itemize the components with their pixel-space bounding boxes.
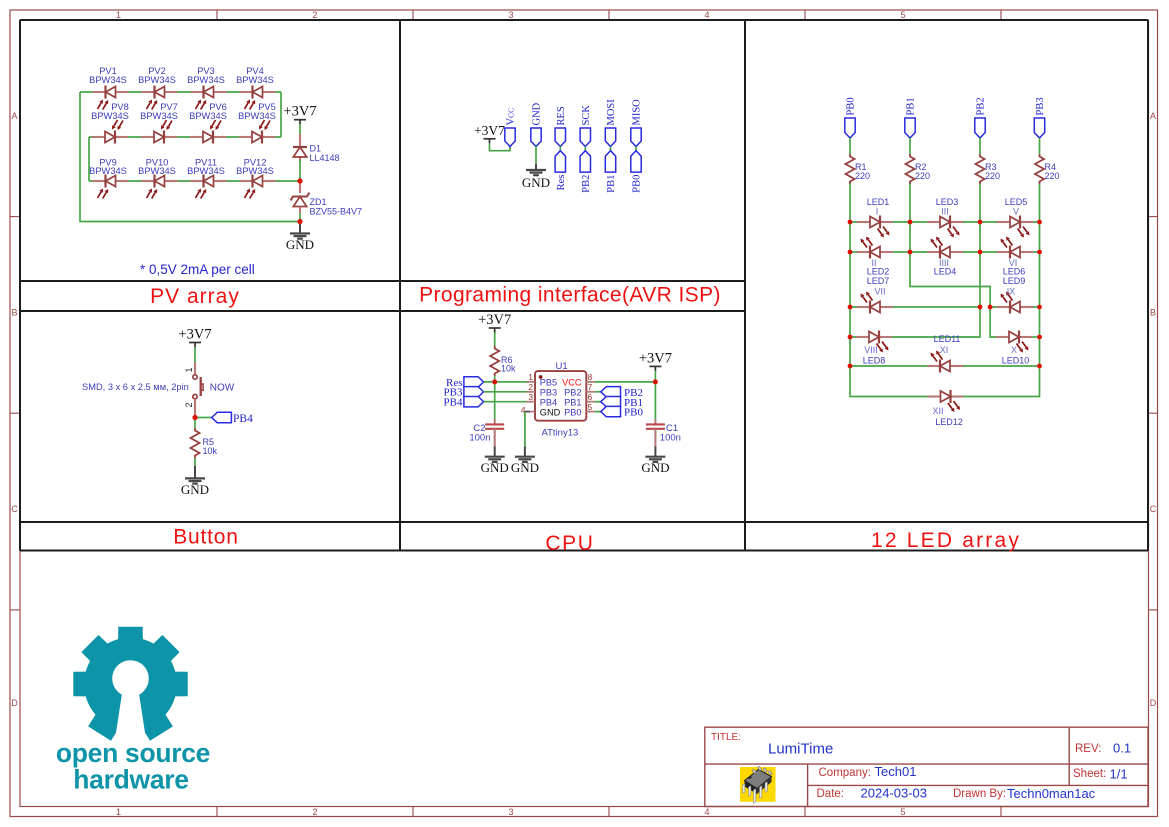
- svg-text:ATtiny13: ATtiny13: [542, 428, 579, 439]
- svg-text:Programing interface(AVR ISP): Programing interface(AVR ISP): [419, 284, 721, 307]
- svg-text:VCC: VCC: [506, 108, 517, 126]
- IC U1 ATtiny13: [521, 361, 595, 438]
- photodiode PV4 BPW34S: [236, 66, 275, 110]
- wire PV row2: [89, 136, 281, 138]
- svg-text:C: C: [11, 504, 18, 514]
- global label PB0 (CPU right): [601, 406, 644, 418]
- wire column B rail: [909, 222, 911, 252]
- svg-text:V: V: [1013, 207, 1019, 217]
- junction: [192, 415, 197, 420]
- junction: [1037, 250, 1042, 255]
- wire LED row4 left: [850, 336, 886, 338]
- wire pin to flag: [595, 411, 601, 413]
- junction: [297, 178, 302, 183]
- wire D1 to junction: [299, 160, 301, 181]
- svg-text:Res: Res: [556, 175, 567, 191]
- svg-text:220: 220: [1045, 171, 1060, 181]
- wire column D rail: [958, 222, 1040, 397]
- svg-text:D1: D1: [310, 144, 322, 154]
- global label GND (ISP top): [531, 102, 543, 146]
- svg-text:5: 5: [588, 402, 593, 412]
- power +3V7 (PV): [283, 104, 316, 125]
- svg-text:D: D: [1150, 698, 1157, 708]
- svg-text:220: 220: [855, 171, 870, 181]
- svg-text:GND: GND: [181, 482, 209, 497]
- global label PB1 (LED array): [905, 97, 917, 138]
- global label RES (ISP top): [555, 106, 567, 146]
- svg-text:8: 8: [588, 372, 593, 382]
- svg-text:BPW34S: BPW34S: [187, 75, 225, 85]
- wire flag to pin: [484, 381, 527, 383]
- svg-text:1: 1: [116, 10, 121, 20]
- svg-text:MISO: MISO: [632, 99, 643, 126]
- LED LED1: [857, 197, 893, 238]
- svg-text:2: 2: [312, 807, 317, 817]
- svg-text:hardware: hardware: [73, 765, 188, 795]
- wire (ISP link): [610, 147, 612, 151]
- wire button junction: [194, 415, 196, 428]
- svg-text:+3V7: +3V7: [178, 327, 211, 343]
- svg-text:REV:: REV:: [1075, 743, 1101, 755]
- global label PB4 (CPU left): [444, 397, 484, 409]
- resistor R1 220: [846, 154, 871, 184]
- svg-text:PB1: PB1: [906, 97, 917, 115]
- title block text: [711, 732, 1131, 801]
- svg-text:PB2: PB2: [976, 97, 987, 115]
- svg-text:PB2: PB2: [564, 388, 581, 398]
- resistor R6 10k: [490, 346, 516, 376]
- svg-text:BPW34S: BPW34S: [140, 111, 178, 121]
- svg-text:* 0,5V 2mA per cell: * 0,5V 2mA per cell: [140, 262, 255, 277]
- wire R down: [1039, 184, 1041, 222]
- wire flag to R: [979, 138, 981, 154]
- wire +3V7 to R6: [494, 333, 496, 347]
- title block chip icon: [740, 766, 776, 803]
- svg-text:PB2: PB2: [581, 175, 592, 193]
- wire +3V7 to Vcc flag: [490, 143, 511, 150]
- wire flag to R: [1039, 138, 1041, 154]
- diode D1 LL4148: [293, 134, 340, 163]
- wire pin4 to GND: [525, 412, 530, 447]
- wire LED row1: [850, 221, 1040, 223]
- svg-text:0.1: 0.1: [1113, 741, 1131, 756]
- svg-text:TITLE:: TITLE:: [711, 732, 741, 743]
- svg-text:+3V7: +3V7: [474, 123, 505, 138]
- LED LED5: [997, 197, 1033, 238]
- svg-text:SMD, 3 x 6 x 2.5 мм, 2pin: SMD, 3 x 6 x 2.5 мм, 2pin: [82, 382, 189, 392]
- global label PB3 (CPU left): [444, 387, 484, 399]
- svg-text:LED7: LED7: [867, 276, 890, 286]
- svg-text:BPW34S: BPW34S: [236, 166, 274, 176]
- svg-text:C: C: [1150, 504, 1157, 514]
- section boxes: [20, 20, 1148, 551]
- junction: [653, 379, 658, 384]
- svg-text:12 LED array: 12 LED array: [871, 529, 1021, 552]
- wire LED row3 left: [850, 306, 980, 308]
- resistor R4 220: [1035, 154, 1060, 184]
- ground (U1 pin4): [511, 446, 539, 475]
- svg-text:Company:: Company:: [819, 767, 871, 779]
- global label PB0 (ISP bottom): [631, 151, 643, 193]
- junction: [848, 305, 853, 310]
- svg-text:1: 1: [528, 372, 533, 382]
- svg-text:10k: 10k: [501, 364, 516, 374]
- svg-text:Techn0man1ac: Techn0man1ac: [1007, 786, 1096, 801]
- svg-text:3: 3: [508, 10, 513, 20]
- svg-text:+3V7: +3V7: [478, 312, 511, 328]
- svg-text:6: 6: [588, 392, 593, 402]
- wire (ISP link): [584, 147, 586, 151]
- svg-text:GND: GND: [532, 102, 543, 125]
- open source hardware logo: [56, 627, 210, 795]
- wire to PB4 flag: [195, 417, 212, 419]
- svg-text:PB3: PB3: [1035, 97, 1046, 115]
- svg-text:MOSI: MOSI: [606, 99, 617, 126]
- capacitor C2 100n: [469, 423, 504, 444]
- svg-text:LL4148: LL4148: [310, 153, 340, 163]
- svg-text:220: 220: [915, 171, 930, 181]
- svg-text:LED1: LED1: [867, 197, 890, 207]
- svg-text:GND: GND: [481, 460, 509, 475]
- global label PB4 (button): [212, 412, 253, 425]
- svg-text:PB5: PB5: [540, 378, 557, 388]
- svg-text:7: 7: [588, 382, 593, 392]
- global label PB2 (CPU right): [601, 387, 643, 399]
- svg-text:BPW34S: BPW34S: [236, 75, 274, 85]
- svg-text:LED9: LED9: [1003, 276, 1026, 286]
- svg-text:GND: GND: [522, 175, 550, 190]
- wire pin to flag: [595, 391, 601, 393]
- svg-text:X: X: [1011, 345, 1017, 355]
- svg-text:Date:: Date:: [817, 788, 845, 800]
- svg-text:VII: VII: [874, 287, 885, 297]
- svg-text:BPW34S: BPW34S: [138, 75, 176, 85]
- LED LED10: [996, 331, 1032, 366]
- svg-text:RES: RES: [556, 106, 567, 125]
- photodiode PV11 BPW34S: [187, 158, 226, 199]
- svg-text:LumiTime: LumiTime: [768, 741, 833, 758]
- svg-text:Sheet:: Sheet:: [1073, 768, 1106, 780]
- svg-text:ZD1: ZD1: [310, 197, 327, 207]
- ground (C2): [481, 446, 509, 475]
- section titles: [150, 284, 1021, 556]
- svg-text:B: B: [1150, 308, 1156, 318]
- wire R down: [849, 184, 851, 222]
- global label PB2 (ISP bottom): [580, 151, 592, 193]
- junction: [1037, 305, 1042, 310]
- resistor R5 10k: [191, 428, 218, 458]
- junction: [978, 305, 983, 310]
- photodiode PV6 BPW34S: [189, 102, 227, 144]
- wire flag to pin: [484, 401, 527, 403]
- wire junction to C1: [654, 382, 656, 419]
- wire +3V7 to D1: [299, 124, 301, 141]
- svg-text:5: 5: [900, 807, 905, 817]
- wire flag to R: [909, 138, 911, 154]
- photodiode PV12 BPW34S: [236, 158, 275, 199]
- svg-text:+3V7: +3V7: [639, 350, 672, 366]
- svg-text:XI: XI: [940, 345, 949, 355]
- svg-text:GND: GND: [540, 407, 561, 417]
- photodiode PV1 BPW34S: [89, 66, 128, 110]
- capacitor C2 lead 2: [494, 429, 496, 447]
- pushbutton NOW (SMD 3x6x2.5): [184, 362, 235, 415]
- wire R down: [979, 184, 981, 222]
- global label PB3 (LED array): [1034, 97, 1046, 138]
- svg-text:A: A: [11, 111, 17, 121]
- svg-text:LED11: LED11: [934, 334, 961, 344]
- LED LED7: [857, 276, 893, 314]
- wire LED row3 right: [990, 306, 1039, 308]
- wire flag to pin: [484, 391, 527, 393]
- svg-text:open source: open source: [56, 738, 210, 768]
- wire R down: [909, 184, 911, 222]
- wire LED row2: [850, 251, 1040, 253]
- power +3V7 (CPU right): [639, 350, 672, 371]
- zener ZD1 BZV55-B4V7: [291, 193, 363, 217]
- svg-text:CPU: CPU: [545, 532, 594, 555]
- wire PV left rail: [80, 92, 300, 222]
- photodiode PV3 BPW34S: [187, 66, 226, 110]
- LED LED8: [856, 331, 892, 366]
- wire flag to R: [849, 138, 851, 154]
- power +3V7 (Button): [178, 327, 211, 348]
- svg-text:LED4: LED4: [934, 267, 957, 277]
- svg-text:BPW34S: BPW34S: [238, 111, 276, 121]
- junction: [492, 379, 497, 384]
- svg-text:PV array: PV array: [150, 285, 240, 308]
- svg-text:BPW34S: BPW34S: [89, 166, 127, 176]
- LED LED6: [997, 237, 1033, 277]
- svg-text:4: 4: [704, 807, 709, 817]
- note SMD size: [82, 382, 189, 392]
- photodiode PV8 BPW34S: [91, 102, 129, 144]
- wire PV row1: [80, 91, 281, 93]
- junction: [978, 220, 983, 225]
- wire pin to flag: [595, 401, 601, 403]
- junction: [848, 220, 853, 225]
- wire PV row1-row2 right link: [280, 92, 282, 137]
- svg-text:PB3: PB3: [540, 388, 557, 398]
- svg-text:10k: 10k: [203, 446, 218, 456]
- svg-text:PB4: PB4: [444, 397, 463, 409]
- svg-text:2: 2: [312, 10, 317, 20]
- svg-text:220: 220: [985, 171, 1000, 181]
- title block frame: [705, 727, 1148, 806]
- ground (ISP): [522, 164, 550, 190]
- wire junction to ZD1: [299, 181, 301, 193]
- junction: [988, 305, 993, 310]
- photodiode PV2 BPW34S: [138, 66, 177, 110]
- svg-text:I: I: [876, 207, 879, 217]
- svg-text:BPW34S: BPW34S: [91, 111, 129, 121]
- svg-text:2024-03-03: 2024-03-03: [861, 785, 928, 800]
- svg-text:PB4: PB4: [233, 413, 253, 425]
- svg-text:Tech01: Tech01: [875, 764, 917, 779]
- global label PB1 (ISP bottom): [605, 151, 617, 193]
- junction: [1037, 364, 1042, 369]
- svg-text:4: 4: [704, 10, 709, 20]
- ground (PV): [286, 222, 314, 253]
- svg-text:PB0: PB0: [846, 97, 857, 115]
- svg-text:XII: XII: [932, 406, 943, 416]
- svg-text:+3V7: +3V7: [283, 104, 316, 120]
- svg-text:GND: GND: [286, 237, 314, 252]
- svg-text:III: III: [941, 207, 949, 217]
- svg-text:BPW34S: BPW34S: [138, 166, 176, 176]
- svg-text:GND: GND: [641, 460, 669, 475]
- svg-text:1: 1: [184, 367, 194, 372]
- svg-text:NOW: NOW: [210, 383, 235, 394]
- svg-text:2: 2: [528, 382, 533, 392]
- LED LED2: [857, 237, 893, 277]
- junction: [848, 364, 853, 369]
- svg-text:PB1: PB1: [564, 397, 581, 407]
- svg-text:PB0: PB0: [632, 175, 643, 193]
- svg-text:BPW34S: BPW34S: [89, 75, 127, 85]
- ground (C1): [641, 446, 669, 475]
- global label VCC (ISP top): [505, 108, 517, 147]
- wire PV row3: [89, 180, 300, 182]
- svg-text:1/1: 1/1: [1110, 766, 1128, 781]
- global label PB2 (LED array): [975, 97, 987, 138]
- global label PB1 (CPU right): [601, 397, 643, 409]
- photodiode PV7 BPW34S: [140, 102, 178, 144]
- svg-text:1: 1: [116, 807, 121, 817]
- junction: [908, 220, 913, 225]
- LED LED9: [997, 276, 1033, 314]
- photodiode PV5 BPW34S: [238, 102, 276, 144]
- wire R5 to GND: [194, 458, 196, 466]
- svg-text:LED3: LED3: [936, 197, 959, 207]
- svg-text:2: 2: [184, 402, 194, 407]
- svg-text:3: 3: [528, 392, 533, 402]
- photodiode PV10 BPW34S: [138, 158, 177, 199]
- global label Res (ISP bottom): [555, 151, 567, 191]
- global label MISO (ISP top): [631, 99, 643, 147]
- junction: [1037, 335, 1042, 340]
- wire column B jog: [910, 252, 1002, 337]
- power +3V7 (CPU left): [478, 312, 511, 333]
- photodiode PV9 BPW34S: [89, 158, 128, 199]
- svg-text:BZV55-B4V7: BZV55-B4V7: [310, 207, 363, 217]
- svg-text:100n: 100n: [469, 432, 490, 443]
- svg-text:LED5: LED5: [1005, 197, 1028, 207]
- capacitor C1 100n: [646, 423, 681, 444]
- svg-text:GND: GND: [511, 460, 539, 475]
- svg-text:Button: Button: [173, 526, 239, 549]
- resistor R3 220: [976, 154, 1001, 184]
- wire pin8 to +3V7: [595, 381, 656, 383]
- svg-text:U1: U1: [556, 361, 568, 372]
- junction: [908, 250, 913, 255]
- svg-text:5: 5: [900, 10, 905, 20]
- wire LED row4 right: [1026, 336, 1040, 338]
- ground (Button): [181, 466, 209, 497]
- wire PV row2-row3 left link: [88, 137, 90, 181]
- global label Res (CPU left): [446, 377, 484, 389]
- junction: [297, 219, 302, 224]
- svg-text:VIII: VIII: [864, 345, 878, 355]
- svg-text:3: 3: [508, 807, 513, 817]
- svg-text:B: B: [11, 308, 17, 318]
- wire LED row5: [850, 365, 1040, 367]
- svg-text:SCK: SCK: [581, 105, 592, 126]
- wire GND flag down: [535, 147, 537, 165]
- svg-text:LED10: LED10: [1002, 356, 1030, 366]
- svg-text:BPW34S: BPW34S: [189, 111, 227, 121]
- svg-text:LED6: LED6: [1003, 267, 1026, 277]
- wire column A rail: [850, 222, 934, 397]
- svg-text:PB0: PB0: [564, 407, 581, 417]
- capacitor C1 lead: [654, 419, 656, 424]
- svg-text:A: A: [1150, 111, 1156, 121]
- junction: [848, 335, 853, 340]
- svg-text:PB0: PB0: [624, 407, 643, 419]
- capacitor C1 lead 2: [654, 429, 656, 447]
- global label SCK (ISP top): [580, 105, 592, 147]
- svg-text:100n: 100n: [660, 432, 681, 443]
- svg-text:D: D: [11, 698, 18, 708]
- wire junction to C2: [494, 382, 496, 419]
- junction: [978, 250, 983, 255]
- LED LED12: [928, 390, 964, 427]
- wire (ISP link): [635, 147, 637, 151]
- svg-text:VCC: VCC: [562, 378, 582, 388]
- svg-text:LED12: LED12: [935, 417, 963, 427]
- global label PB0 (LED array): [845, 97, 857, 138]
- note 0.5V per cell: [140, 262, 255, 277]
- LED LED3: [927, 197, 963, 238]
- wire column C rail: [886, 222, 980, 337]
- junction: [848, 250, 853, 255]
- LED LED11: [927, 334, 963, 373]
- svg-text:PB4: PB4: [540, 397, 557, 407]
- power +3V7 (ISP): [474, 123, 505, 144]
- wire (ISP link): [559, 147, 561, 151]
- junction: [1037, 220, 1042, 225]
- wire ZD1 to junction: [299, 213, 301, 222]
- wire +3V7 down: [654, 371, 656, 382]
- svg-text:Drawn By:: Drawn By:: [953, 788, 1006, 800]
- global label MOSI (ISP top): [605, 99, 617, 147]
- svg-text:BPW34S: BPW34S: [187, 166, 225, 176]
- svg-text:LED8: LED8: [863, 356, 886, 366]
- LED LED4: [927, 237, 963, 277]
- svg-text:IX: IX: [1007, 287, 1016, 297]
- wire R6 to junction: [494, 376, 496, 382]
- svg-text:LED2: LED2: [867, 267, 890, 277]
- capacitor C2 lead: [494, 419, 496, 424]
- resistor R2 220: [906, 154, 931, 184]
- svg-text:PB1: PB1: [606, 175, 617, 193]
- wire +3V7 to switch: [194, 347, 196, 362]
